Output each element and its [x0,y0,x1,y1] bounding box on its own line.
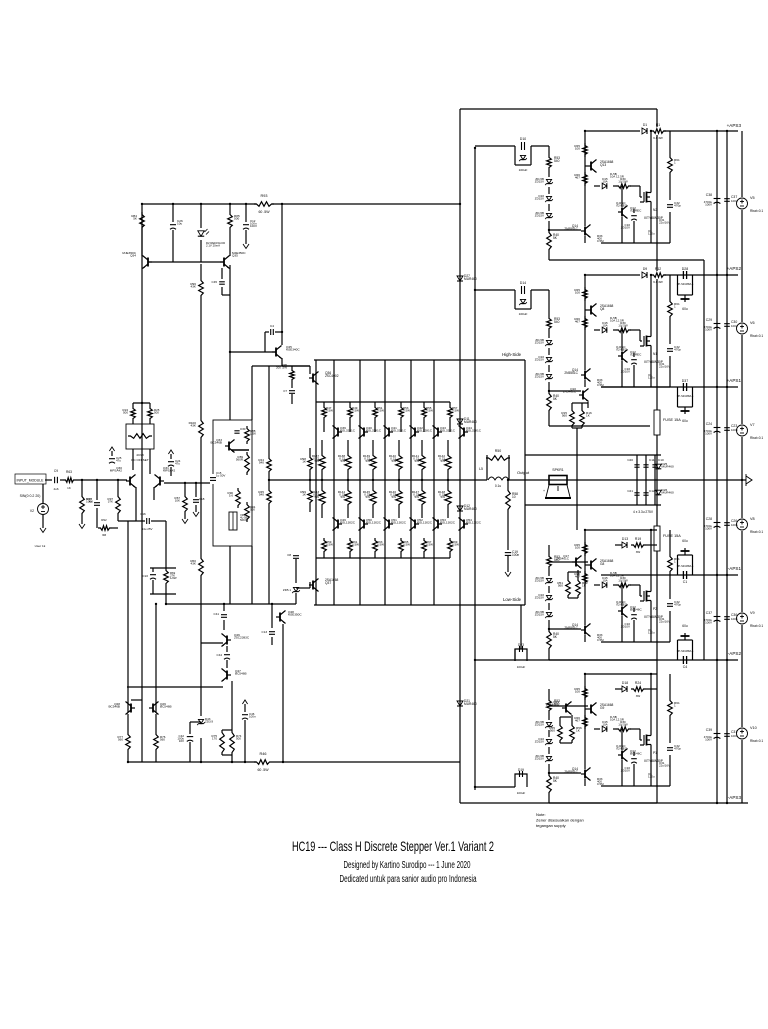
battery V6 [737,323,748,334]
svg-text:-APS3: -APS3 [728,795,742,800]
transistor Q48 MJE350C [279,613,281,622]
transistor Q34 MJE350C [147,258,149,267]
arrow sup C46 [242,700,247,704]
resistor emitter bottom col1 [321,480,323,488]
diode-cap combo D10 block A [514,146,516,165]
wire tail cluster bottom [150,593,176,595]
resistor R44 fb top [267,456,272,474]
capacitor C42 [189,722,191,734]
junction bottom rail [127,761,129,763]
wire fb node [164,482,210,484]
svg-text:C41: C41 [214,612,220,616]
svg-text:500: 500 [123,411,128,415]
resistor source block B [668,299,673,319]
wire gate row block A [594,185,600,187]
svg-text:16V: 16V [179,739,184,743]
wire block bottom outer C [549,659,657,661]
svg-text:BC546B: BC546B [235,672,247,676]
capacitor C18 [195,483,197,497]
svg-text:MJL3281C: MJL3281C [391,429,407,433]
wire feed block D [549,705,588,707]
svg-text:MUR460: MUR460 [464,277,477,281]
transistor Q42 MJL3281C col4 [414,428,416,437]
svg-text:C30: C30 [240,427,246,431]
fuse F2 15A [654,526,660,551]
svg-text:ZD15V: ZD15V [535,341,544,345]
svg-text:3W: 3W [636,694,641,698]
resistor lower block C [583,571,588,585]
wire grid column 1 [333,360,335,605]
capacitor C23 bypass [724,427,730,429]
resistor emitter bottom col4 [398,480,400,488]
capacitor C15 [209,474,217,484]
svg-text:22u/16V: 22u/16V [659,221,670,225]
resistor R30 block A [616,184,631,189]
resistor R85 500 [229,204,231,212]
ground C12 [243,244,249,249]
wire feedback column [268,366,270,456]
zener ZD3 block A [548,204,550,211]
diode D21 MUR460 [456,696,464,712]
diode D15 block C [602,582,607,588]
wire q14 tail A [584,236,586,243]
resistor emitter top col3 [372,440,374,453]
svg-text:V7: V7 [750,423,755,427]
svg-text:2N5551C: 2N5551C [564,770,578,774]
svg-text:L5: L5 [479,467,483,471]
svg-text:50KG: 50KG [240,518,247,522]
svg-text:MUR460: MUR460 [464,507,477,511]
resistor upper block A [583,143,588,157]
svg-text:60u: 60u [682,307,688,311]
wire dropper x201 [200,264,202,278]
capacitor source block A [667,204,673,206]
junction dots supply rails [716,130,718,132]
svg-text:FUSE 15A: FUSE 15A [663,418,681,422]
resistor R65 grid bottom col4 [399,538,404,554]
svg-text:ZD10V: ZD10V [621,370,630,374]
svg-text:60 .5W: 60 .5W [257,768,269,772]
capacitor C29 bulk [714,323,721,325]
transistor Q14 block A [584,227,586,236]
wire Q10 links [571,403,573,408]
capacitor C41 [221,614,227,616]
wire feed block B [475,289,515,291]
svg-text:-APS1: -APS1 [728,566,742,571]
wire chain block D [548,689,550,698]
svg-text:4C93: 4C93 [136,453,144,457]
svg-text:R24: R24 [635,681,641,685]
diode D11 MUR460 [456,414,464,430]
resistor R61 grid bottom col2 [348,538,353,554]
svg-text:1: 1 [674,704,676,708]
capacitor C20 [634,464,639,466]
resistor R100 43K [199,418,204,440]
svg-text:MJL3281C: MJL3281C [440,429,456,433]
resistor R52 [576,578,581,598]
ground V2 [40,528,46,533]
wire zobel gnd lead [507,556,509,572]
svg-text:5W: 5W [315,495,320,499]
svg-text:0.5M: 0.5M [597,782,604,786]
svg-text:467: 467 [575,176,580,180]
svg-text:100V: 100V [705,432,712,436]
svg-text:C21: C21 [627,489,633,493]
svg-text:100V: 100V [705,738,712,742]
wire top-left VAS rail [142,203,460,205]
wire chain block A [548,146,550,155]
junction dots block B [584,274,586,276]
mosfet ('N1', 'IXTY88N30P') block B [643,336,645,346]
svg-text:DC OFFSET: DC OFFSET [131,458,149,462]
resistor R45 fb bottom [267,488,272,506]
resistor R46 series in bottom-left rail [256,758,272,766]
wire combo D link [475,786,515,788]
resistor R67 [184,483,186,494]
resistor R95 vas load top [291,366,293,368]
resistor emitter bottom col6 [447,480,449,488]
wire q28 base bridge [131,699,142,701]
bias box internal wires [231,449,249,451]
svg-text:540: 540 [259,493,264,497]
svg-text:V9: V9 [750,611,755,615]
svg-text:ZD15V: ZD15V [535,358,544,362]
capacitor C8 nfb [293,555,299,557]
junction grid col 434 [421,479,423,481]
svg-text:BC546B: BC546B [210,441,222,445]
wire offset top [132,403,134,406]
resistor R25 [148,406,153,421]
ground zobel [505,572,511,577]
wire block bottom inner C [601,641,670,643]
capacitor C16 tail [146,518,148,524]
zener D8 [293,587,298,591]
wire bulk cap column [716,131,718,803]
svg-text:Low-Side: Low-Side [503,597,522,602]
svg-text:560: 560 [550,729,555,733]
resistor emitter top col2 [347,440,349,453]
svg-text:R92: R92 [101,518,107,522]
svg-text:4 x 3.3u 275V: 4 x 3.3u 275V [633,510,654,514]
zener ZD3 block D [548,747,550,754]
wire c42 stub [190,721,201,723]
resistor R84 5K [140,212,145,230]
resistor R55 grid top col5 [423,402,425,405]
capacitor gate1 block B [633,353,635,357]
resistor upper block D [583,686,588,700]
wire chain tail block D [548,795,550,803]
zener ZD1 block D [548,713,550,720]
svg-text:130u: 130u [648,631,655,635]
svg-text:500: 500 [154,411,159,415]
svg-text:C22: C22 [143,574,149,578]
capacitor C22 tail [152,568,154,572]
svg-text:10A: 10A [602,723,607,727]
wire hv mid top [525,454,629,456]
wire rail3 to C [576,428,578,530]
battery V10 [737,728,748,739]
svg-text:5W: 5W [441,459,446,463]
wire source column block D [669,674,671,698]
resistor source block C [668,554,673,574]
svg-text:Rbat=0.1: Rbat=0.1 [750,739,763,743]
svg-text:1K: 1K [67,486,71,490]
resistor R1 on rail block A [652,127,664,135]
svg-text:5W: 5W [315,459,320,463]
svg-text:G8: G8 [600,562,605,566]
diode D26 MUR460 [656,490,662,495]
inductor L5 with resistor R50 [486,455,488,480]
node output arrow [746,476,752,484]
wire drive bus vertical [474,148,476,790]
capacitor C46 [242,714,248,716]
source V2 [42,484,44,503]
transistor Q49 MJL1302C col1 [337,520,339,529]
svg-text:Rbat=0.1: Rbat=0.1 [750,436,763,440]
svg-text:Output: Output [517,470,530,475]
transistor BC546C block C [621,585,623,606]
wire q14 tail D [584,779,586,786]
svg-text:HC19 --- Class H Discrete Step: HC19 --- Class H Discrete Stepper Ver.1 … [292,838,494,854]
svg-text:MJL1302C: MJL1302C [417,521,433,525]
svg-text:MPSA42: MPSA42 [163,469,175,473]
resistor emitter top col5 [421,440,423,453]
svg-text:100n: 100n [731,734,738,738]
wire c17 top [96,480,98,493]
svg-text:1.5K: 1.5K [250,432,256,436]
svg-text:ZD15V: ZD15V [535,214,544,218]
wire q48 col [282,624,284,762]
svg-text:10A: 10A [602,180,607,184]
wire chain block B [548,290,550,316]
capacitor C4 [265,331,269,333]
resistor R30 block B [616,328,631,333]
capacitor C24 [168,461,174,463]
svg-text:10/.5W: 10/.5W [618,579,628,583]
capacitor C10 [652,464,657,466]
svg-text:100n: 100n [249,715,256,719]
svg-text:ZD15V: ZD15V [535,757,544,761]
wire supply feed column A [703,260,705,660]
svg-text:467: 467 [575,320,580,324]
svg-text:Rbat=0.1: Rbat=0.1 [750,530,763,534]
capacitor C44 [226,646,228,652]
arrow sup C24 [168,450,173,454]
svg-text:P2: P2 [653,607,657,611]
svg-text:C18: C18 [199,497,205,501]
wire block bottom inner B [601,386,670,388]
resistor chain-top block C [547,554,552,569]
svg-text:2.1V 20mA: 2.1V 20mA [206,244,220,248]
led D2 [200,204,202,228]
svg-text:0.5W: 0.5W [426,409,433,413]
svg-text:Rbat=0.1: Rbat=0.1 [750,334,763,338]
transistor Q47 BC546B [226,671,228,680]
wire q47 base wire [127,686,223,688]
svg-text:0.5M: 0.5M [597,239,604,243]
wire grid base rail bottom [316,557,450,559]
zener ZD2 block B [548,348,550,355]
junction dots block D [584,673,586,675]
svg-text:-APS2: -APS2 [728,651,742,656]
mosfet ('P2', 'IXTY88N30P') block C [643,591,645,601]
wire block bottom inner D [601,785,670,787]
wire stage column block B [584,275,586,370]
resistor R19 feed block C [631,543,646,548]
svg-text:1/2W: 1/2W [170,576,177,580]
zener ZD3 block B [548,365,550,372]
svg-text:ZD15V: ZD15V [535,180,544,184]
svg-text:60u: 60u [682,419,688,423]
capacitor C45 [221,268,223,279]
svg-text:MUR460: MUR460 [464,702,477,706]
svg-text:130u: 130u [648,376,655,380]
svg-text:100uF: 100uF [517,791,526,795]
battery V5 [737,198,748,209]
wire bypass cap column [726,131,728,803]
transistor Q9 block B [584,371,586,380]
svg-text:Q13: Q13 [600,163,606,167]
svg-text:5.6: 5.6 [229,494,233,498]
svg-text:V10: V10 [750,726,757,730]
svg-text:Zener disesuaikan dengan: Zener disesuaikan dengan [536,818,584,823]
wire stage column block A [584,131,586,226]
svg-text:+APS2: +APS2 [727,266,742,271]
wire output bus right edge [656,109,658,803]
svg-text:X2-REC: X2-REC [630,209,642,213]
svg-text:100V: 100V [705,621,712,625]
resistor R51 grid top col3 [374,402,376,405]
resistor R69 27K [164,568,169,586]
resistor R99 driver bottom [308,488,313,505]
rail +APS2 [585,274,738,276]
svg-text:C39: C39 [706,728,712,732]
svg-text:10A 12.5R: 10A 12.5R [610,319,624,323]
svg-text:C38: C38 [706,193,712,197]
wire q14 tail B [584,380,586,387]
transistor BC546C block D [621,729,623,750]
junction grid col 460 [447,479,449,481]
svg-text:C1: C1 [683,580,688,584]
junction grid col 385 [372,479,374,481]
svg-text:X2-REC: X2-REC [630,353,642,357]
resistor R55 [558,723,563,743]
svg-text:2N5401C: 2N5401C [556,557,570,561]
svg-text:44u 25V: 44u 25V [141,527,152,531]
svg-text:10/.5W: 10/.5W [618,324,628,328]
svg-text:FUSE 15A: FUSE 15A [663,534,681,538]
svg-text:tegangan supply: tegangan supply [536,823,567,828]
svg-text:D9: D9 [643,267,647,271]
capacitor C26 bypass [724,522,730,524]
svg-text:5W: 5W [341,495,346,499]
svg-text:ZD3.9: ZD3.9 [205,720,213,724]
resistor source block A [668,155,673,175]
capacitor C7 [289,390,295,392]
svg-text:10A: 10A [602,324,607,328]
capacitor C30 [234,430,239,432]
svg-text:22u/16V: 22u/16V [659,365,670,369]
transistor Q41 MJL3281C col3 [388,428,390,437]
svg-text:5W: 5W [392,459,397,463]
transistor Q51 MJL1302C col3 [388,520,390,529]
svg-text:X2-REC: X2-REC [616,603,628,607]
svg-text:Rbat=0.1: Rbat=0.1 [750,209,763,213]
svg-text:500: 500 [234,217,239,221]
wire mid column x252 [251,366,253,420]
svg-text:MJL1302C: MJL1302C [340,521,356,525]
transistor G9 block D [590,705,592,714]
svg-text:2SC2383C: 2SC2383C [234,636,250,640]
svg-text:R12: R12 [655,267,661,271]
transistor X2-REC block B [621,330,623,351]
net drive bus left edge of output section [459,109,461,803]
junction dots block C [584,529,586,531]
wire driver base bottom [296,587,310,589]
resistor R97 37K [116,494,121,516]
svg-text:0.5M: 0.5M [597,383,604,387]
rail +APS3 [585,130,738,132]
svg-text:High-Side: High-Side [502,352,522,357]
resistor R49 grid top col2 [349,402,351,405]
svg-text:X2-REC: X2-REC [616,747,628,751]
capacitor gate1 block C [633,608,635,612]
resistor R60 43K [199,556,204,578]
wire block bottom outer A [549,259,704,261]
transistor Q50 MJL1302C col2 [363,520,365,529]
resistor R69 grid bottom col6 [448,538,453,554]
svg-text:0.5W: 0.5W [352,543,359,547]
svg-text:100: 100 [575,291,580,295]
wire chain tail block C [548,651,550,660]
svg-text:Q8: Q8 [600,307,605,311]
svg-text:0.5W: 0.5W [452,543,459,547]
battery V9 [737,613,748,624]
speaker SPEAKER1 [549,476,567,485]
svg-text:100V: 100V [250,224,257,228]
svg-text:SIN(0 0.2 20): SIN(0 0.2 20) [20,494,41,498]
transistor Q33 BC546B [228,442,230,451]
wire driver base top [282,365,310,367]
svg-text:N1: N1 [653,352,657,356]
resistor lower block B [583,316,588,330]
svg-text:C9: C9 [54,469,58,473]
svg-text:100: 100 [575,690,580,694]
svg-text:RP-SR-RB2L5: RP-SR-RB2L5 [677,564,694,568]
resistor lower block A [583,172,588,186]
wire main output line [269,479,487,481]
svg-text:470p: 470p [674,204,681,208]
capacitor C39 bulk [714,733,721,735]
wire rail line block C [585,529,657,531]
wire stage column block C [584,530,586,625]
svg-text:560: 560 [558,584,563,588]
capacitor source block C [667,603,673,605]
svg-text:C4: C4 [683,665,688,669]
wire chain block C [548,545,550,554]
svg-text:100n: 100n [731,428,738,432]
svg-text:MJL3281C: MJL3281C [366,429,382,433]
input module label [15,474,46,484]
svg-text:D18: D18 [622,681,628,685]
resistor R12 on rail block B [652,271,664,279]
svg-text:MUR460: MUR460 [464,420,477,424]
resistor R59 grid bottom col1 [322,538,327,554]
svg-text:5W: 5W [441,495,446,499]
svg-text:10u: 10u [177,222,182,226]
svg-text:C8: C8 [287,553,291,557]
svg-text:R63: R63 [66,470,72,474]
